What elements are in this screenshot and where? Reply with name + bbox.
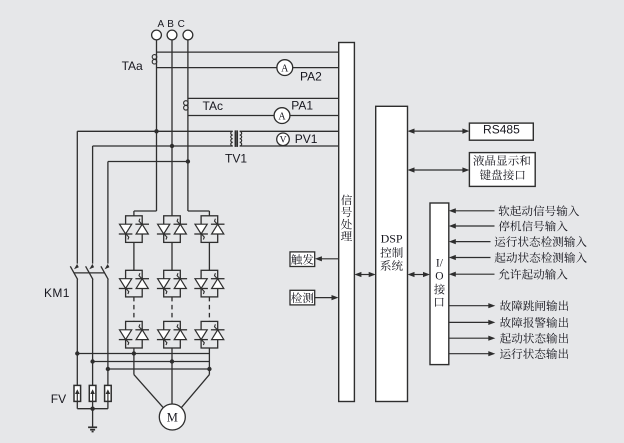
arrow input 运行状态检测输入	[449, 239, 491, 244]
svg-text:O: O	[435, 270, 443, 282]
label 故障报警输出	[500, 317, 568, 328]
wire TAa secondary bottom	[157, 67, 339, 69]
node earth bus	[90, 407, 94, 411]
wire column 1 to bus U	[133, 348, 135, 375]
motor M	[159, 404, 185, 430]
wire earth bus	[77, 408, 108, 410]
node bus W / arrester FV3	[106, 367, 110, 371]
thyristor module V32 (anti-parallel SCR pair)	[157, 321, 187, 348]
wire TAa secondary top	[157, 51, 339, 53]
node phase A tap	[154, 129, 158, 133]
label 软起动信号输入	[499, 205, 579, 216]
svg-text:I/: I/	[436, 257, 444, 269]
svg-text:A: A	[281, 63, 289, 74]
voltmeter PV1	[277, 133, 290, 146]
arrester FV2	[89, 385, 96, 401]
svg-text:A: A	[278, 111, 286, 122]
wire TAc secondary top	[188, 97, 339, 99]
svg-text:M: M	[167, 411, 178, 425]
label 检测	[291, 292, 313, 303]
arrow output 故障报警输出	[449, 320, 496, 325]
arrow detect to signal-processing	[315, 297, 332, 299]
wire KM1 pole 3 upper	[107, 162, 109, 264]
label 停机信号输入	[499, 221, 568, 232]
svg-text:TAa: TAa	[122, 59, 143, 73]
ammeter PA2	[277, 60, 293, 76]
wire KM1 pole 1 upper	[76, 131, 78, 263]
label 触发	[291, 254, 313, 265]
label 运行状态输出	[500, 348, 568, 359]
transformer TV1	[231, 131, 233, 146]
node phase B tap	[170, 144, 174, 148]
wire earth stem	[92, 409, 94, 427]
arrow DSP / I-O interface (bidirectional)	[408, 272, 431, 277]
current transformer TAc	[184, 101, 189, 106]
DSP control system box	[376, 106, 408, 401]
thyristor module V21 (anti-parallel SCR pair)	[119, 270, 149, 297]
label 液晶显示和	[473, 155, 530, 166]
thyristor module V33 (anti-parallel SCR pair)	[194, 321, 224, 348]
wire output bus W	[108, 368, 209, 370]
wire column 3 to bus W	[208, 348, 210, 375]
svg-text:TAc: TAc	[203, 99, 223, 113]
wire column 1 row1-row2	[133, 242, 135, 270]
wire arrester FV1 to earth bus	[76, 401, 78, 408]
arrow input 停机信号输入	[449, 223, 495, 228]
thyristor module V11 (anti-parallel SCR pair)	[119, 216, 149, 243]
wire tap phase B / TV1 primary bottom	[93, 145, 233, 147]
node phase C tap	[186, 159, 190, 163]
arrow DSP / RS485 (bidirectional)	[408, 129, 470, 134]
arrow input 允许起动输入	[449, 272, 495, 277]
detector unit (检测)	[290, 290, 315, 305]
wire tap phase C	[108, 161, 188, 163]
signal-processing unit (信号处理)	[339, 43, 355, 402]
label 允许起动输入	[499, 269, 568, 280]
node bus W / column 3	[207, 367, 211, 371]
arrow signal-processing to trigger	[321, 258, 338, 260]
wire output bus V	[93, 361, 210, 363]
RS485 box	[469, 123, 533, 140]
arrester FV3	[105, 385, 112, 401]
wire phase B vertical	[171, 40, 173, 216]
current transformer TAa	[152, 55, 157, 60]
I/O interface box	[430, 203, 449, 365]
wire jog phase A to column 1	[134, 210, 157, 212]
wire arrester FV3 to earth bus	[107, 401, 109, 408]
arrow input 软起动信号输入	[449, 208, 495, 213]
svg-text:DSP: DSP	[381, 231, 403, 245]
thyristor module V23 (anti-parallel SCR pair)	[194, 270, 224, 297]
wire tap phase A / TV1 primary top	[77, 130, 232, 132]
label 控制	[380, 247, 402, 258]
wire motor lead right	[181, 375, 209, 408]
svg-text:V: V	[280, 136, 287, 146]
arrester FV1	[74, 385, 81, 401]
contactor KM1 pole 2	[89, 264, 94, 269]
svg-text:KM1: KM1	[44, 286, 70, 300]
wire column 1 row2-row3 (dashed, series stack)	[133, 297, 135, 322]
arrow output 故障跳闸输出	[449, 303, 496, 308]
terminal A	[152, 30, 162, 40]
wire column 2 row1-row2	[171, 242, 173, 270]
thyristor module V13 (anti-parallel SCR pair)	[194, 216, 224, 243]
contactor KM1 pole 1	[74, 264, 79, 269]
node bus U / column 1	[132, 351, 136, 355]
wire output bus U	[77, 353, 209, 355]
label 口	[435, 298, 444, 307]
wire jog phase C to column 3	[188, 210, 210, 212]
node bus U / arrester FV1	[75, 351, 79, 355]
ammeter PA1	[274, 108, 290, 124]
wire phase C vertical	[187, 40, 189, 211]
wire phase A vertical	[156, 40, 158, 211]
svg-text:TV1: TV1	[225, 152, 247, 166]
terminal B	[167, 30, 177, 40]
wire column 3 row2-row3 (dashed, series stack)	[208, 297, 210, 322]
svg-text:PA2: PA2	[300, 70, 322, 84]
thyristor module V12 (anti-parallel SCR pair)	[157, 216, 187, 243]
label 运行状态检测输入	[495, 236, 587, 247]
svg-text:FV: FV	[51, 392, 66, 406]
wire column 2 row2-row3 (dashed, series stack)	[171, 297, 173, 322]
svg-text:A: A	[157, 19, 164, 30]
arrow output 运行状态输出	[449, 351, 496, 356]
wire TAc secondary bottom	[188, 115, 339, 117]
trigger unit (触发)	[290, 252, 315, 267]
wire TV1 secondary top	[240, 130, 339, 132]
label 键盘接口	[480, 169, 525, 180]
label 起动状态输出	[500, 333, 568, 344]
wire column 3 row1-row2	[208, 242, 210, 270]
arrow output 起动状态输出	[449, 336, 496, 341]
node bus V / arrester FV2	[90, 359, 94, 363]
KM1 linkage bar	[74, 272, 105, 274]
contactor KM1 pole 3	[105, 264, 110, 269]
wire arrester FV2 to earth bus	[92, 401, 94, 408]
label 系统	[381, 260, 403, 271]
arrow DSP / LCD-keyboard (bidirectional)	[408, 167, 470, 172]
node bus V / column 2	[170, 359, 174, 363]
arrow signal-processing / DSP (bidirectional)	[354, 272, 375, 277]
svg-text:PA1: PA1	[291, 99, 313, 113]
ground (earth) symbol	[88, 427, 97, 431]
label 起动状态检测输入	[495, 252, 587, 263]
thyristor module V22 (anti-parallel SCR pair)	[157, 270, 187, 297]
wire motor lead left	[134, 375, 163, 408]
arrow input 起动状态检测输入	[449, 255, 491, 260]
svg-text:RS485: RS485	[483, 123, 520, 137]
wire column 2 to motor	[171, 348, 173, 404]
LCD / keyboard interface box (液晶显示和键盘接口)	[469, 153, 535, 187]
label 故障跳闸输出	[500, 300, 568, 311]
label 接	[434, 284, 445, 295]
terminal C	[183, 30, 193, 40]
svg-text:PV1: PV1	[295, 132, 318, 146]
thyristor module V31 (anti-parallel SCR pair)	[119, 321, 149, 348]
svg-text:C: C	[178, 19, 185, 30]
wire KM1 pole 2 upper	[92, 146, 94, 264]
wire TV1 secondary bottom	[240, 145, 339, 147]
svg-text:B: B	[167, 19, 174, 30]
